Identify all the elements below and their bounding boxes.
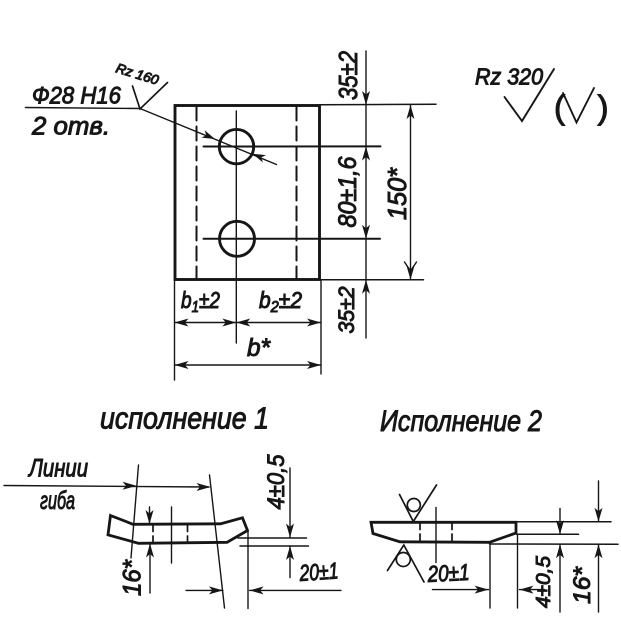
svg-text:20±1: 20±1 — [426, 559, 470, 587]
svg-text:150*: 150* — [382, 167, 412, 220]
dimension 20±1 (view 1) — [247, 531, 249, 609]
dimension line b2 — [236, 322, 321, 324]
side view 2 top extension line A — [516, 521, 611, 523]
dimension line 150* (x=410.5) — [410, 105, 412, 280]
left extension below plate — [174, 281, 176, 380]
leader slanted line to hole — [140, 109, 277, 165]
bottom edge extension line — [320, 279, 424, 281]
vertical centerline of plate — [235, 111, 237, 343]
dimension 4±0,5 (view 2) — [559, 509, 561, 535]
svg-text:гиба: гиба — [40, 487, 75, 515]
side view 2 extension below right — [517, 535, 519, 608]
svg-text:исполнение 1: исполнение 1 — [100, 401, 269, 436]
side view 1 reference line upper — [238, 537, 307, 539]
side view 1 hidden hole line left — [152, 525, 154, 543]
side view 1 centerline — [171, 507, 173, 563]
roughness tick in parentheses — [563, 88, 594, 123]
svg-text:Линии: Линии — [27, 455, 88, 483]
side view 1 reference line lower — [240, 545, 309, 547]
dimension 16* (view 2) — [598, 481, 600, 522]
Rz320 roughness tick — [505, 69, 555, 121]
plate outline (front view) — [175, 106, 320, 280]
svg-text:Rz 320: Rz 320 — [475, 64, 543, 90]
svg-text:b1±2: b1±2 — [181, 287, 220, 316]
roughness tick upper (view 2) — [400, 485, 437, 522]
Rz160 roughness tick — [133, 83, 168, 110]
svg-text:4±0,5: 4±0,5 — [533, 555, 555, 608]
side view 2 outline — [371, 522, 516, 542]
right extension below plate — [320, 281, 322, 374]
svg-text:b2±2: b2±2 — [259, 287, 302, 316]
svg-text:35±2: 35±2 — [333, 51, 363, 100]
side view 2 hidden hole line left — [419, 523, 421, 542]
dimension 20±1 (view 2) — [433, 589, 489, 591]
leader shelf line — [26, 108, 141, 109]
dimension 16* (view 1) — [149, 507, 151, 524]
leader arrowhead at hole (upper-left) — [202, 130, 216, 139]
dimension 4±0,5 (view 1) — [289, 468, 291, 538]
dimension line b* — [175, 364, 322, 366]
leader arrowhead at hole (lower-right) — [253, 154, 267, 163]
bend line right (dashed) — [296, 107, 298, 279]
svg-text:): ) — [598, 89, 609, 126]
side view 2 hidden hole line right — [451, 523, 453, 542]
svg-text:2 отв.: 2 отв. — [31, 113, 110, 141]
side view 2 line B — [517, 533, 579, 535]
hole 1 centerline — [204, 145, 381, 147]
side view 1 outline (bent plate) — [108, 516, 248, 544]
side view 1 hidden hole line right — [187, 525, 189, 543]
roughness tick lower (view 2) — [388, 545, 425, 582]
svg-text:4±0,5: 4±0,5 — [263, 454, 290, 510]
top edge extension line — [320, 103, 437, 106]
hole 1 (top) — [219, 129, 253, 163]
svg-text:80±1,6: 80±1,6 — [334, 156, 362, 227]
bend line 2 (thin) — [210, 475, 225, 608]
svg-text:16*: 16* — [119, 559, 147, 596]
svg-text:16*: 16* — [569, 566, 596, 604]
side view 2 extension below left — [489, 545, 491, 608]
svg-text:Ф28 Н16: Ф28 Н16 — [32, 83, 122, 110]
svg-text:35±2: 35±2 — [334, 287, 359, 334]
svg-text:Исполнение 2: Исполнение 2 — [380, 405, 542, 438]
bend line 1 (thin) — [131, 465, 139, 558]
bend line left (dashed) — [196, 107, 198, 279]
dimension line 35/80/35 (x=366) — [365, 51, 367, 338]
side view 2 line C — [490, 543, 619, 545]
svg-text:20±1: 20±1 — [298, 557, 339, 586]
svg-text:b*: b* — [247, 334, 271, 362]
dimension line b1 — [175, 322, 237, 324]
hole 2 centerline — [204, 238, 381, 240]
side view 2 centerline — [435, 508, 437, 563]
bend-lines pointer line with two arrows — [4, 486, 209, 488]
hole 2 (bottom) — [220, 221, 255, 256]
